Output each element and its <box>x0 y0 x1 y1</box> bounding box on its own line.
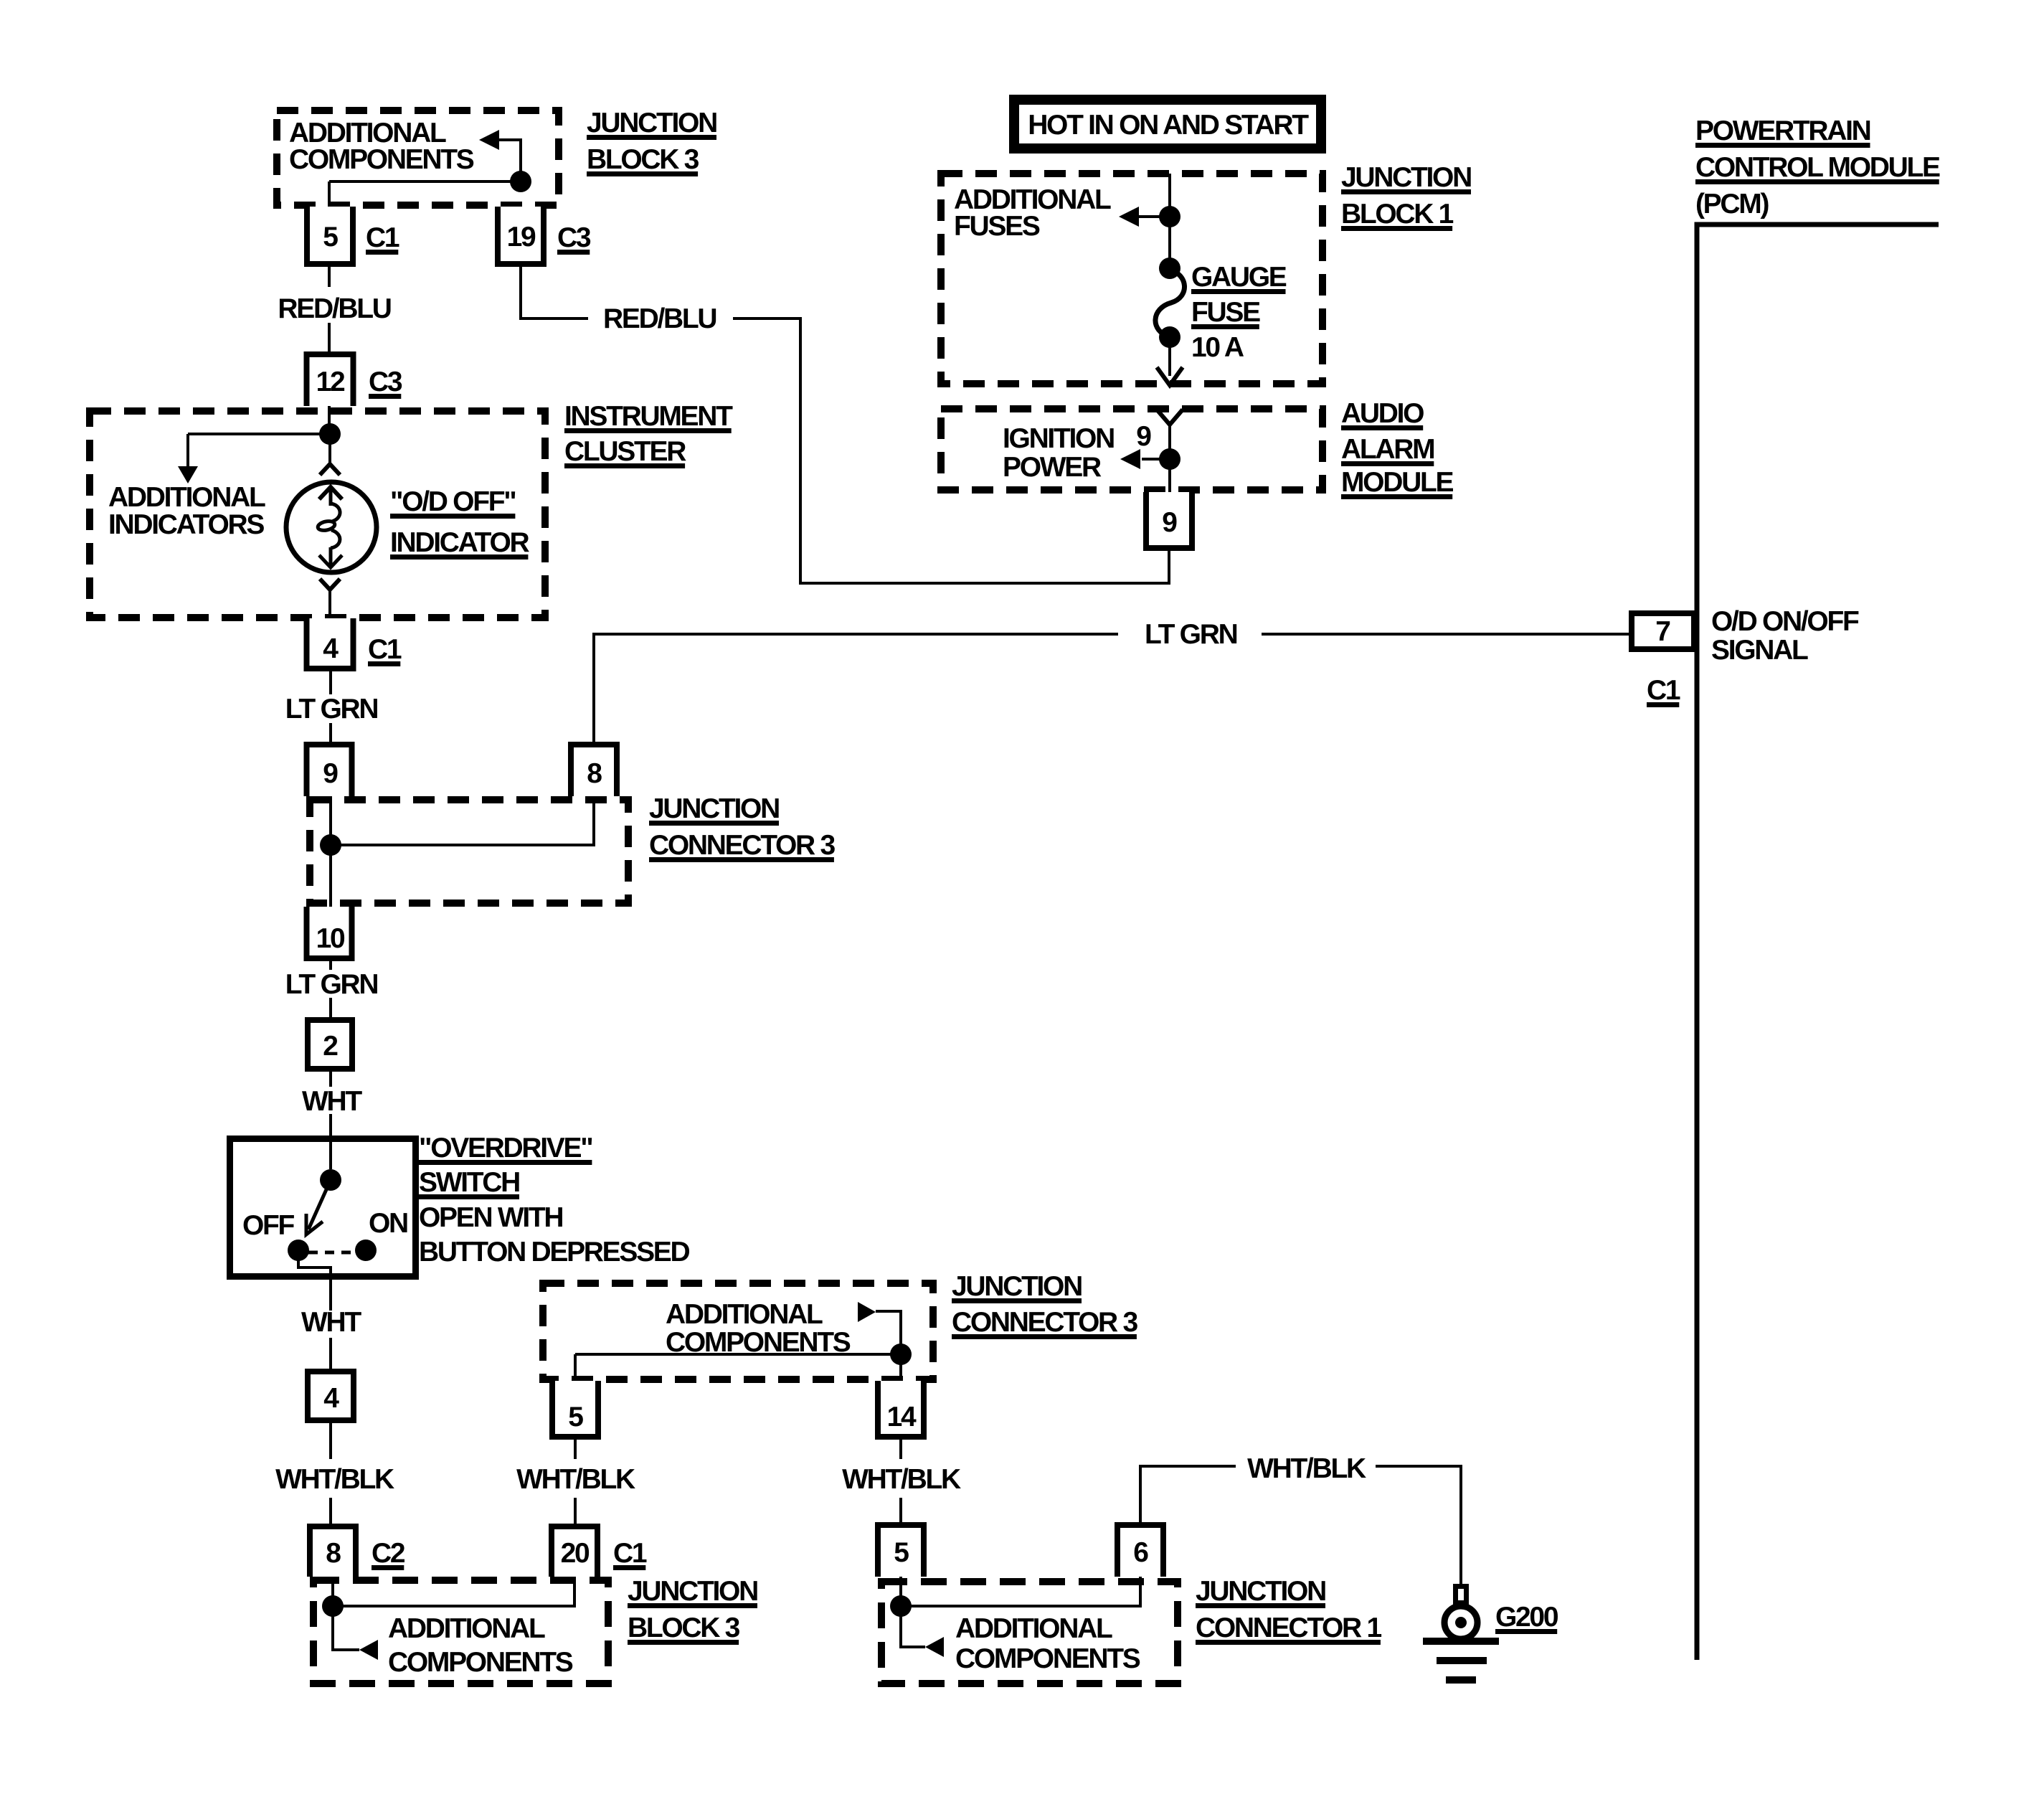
junction connector 1 box <box>881 1582 1178 1684</box>
wire arrow drop <box>186 434 189 466</box>
svg-text:WHT/BLK: WHT/BLK <box>516 1464 635 1495</box>
arrowhead fuse output <box>1157 367 1183 385</box>
wire WHT/BLK to connector 8 <box>329 1498 332 1524</box>
ground G200 <box>1423 1587 1499 1684</box>
svg-text:ALARM: ALARM <box>1341 434 1434 465</box>
wire switch feed <box>329 1136 332 1180</box>
svg-text:POWERTRAIN: POWERTRAIN <box>1695 115 1870 146</box>
junction dot JB3 top <box>510 171 531 192</box>
wire WHT/BLK to connector 20 <box>574 1498 577 1524</box>
wire JB3 horizontal <box>329 180 521 183</box>
switch dashed link <box>308 1251 356 1255</box>
svg-text:WHT/BLK: WHT/BLK <box>1247 1453 1366 1484</box>
wire fuse feed <box>1168 217 1171 268</box>
arrowhead to additional components (JB3 bottom) <box>359 1640 378 1660</box>
wire connector 5 (JC1) to node <box>899 1577 902 1606</box>
wire node to connector 10 <box>329 845 332 912</box>
svg-text:9: 9 <box>1162 507 1177 538</box>
wire WHT to connector 4 <box>329 1338 332 1369</box>
wire LT GRN to connector 2 <box>329 998 332 1017</box>
connector 20 C1 (JB3 bottom) <box>549 1524 600 1577</box>
svg-text:JUNCTION: JUNCTION <box>587 108 716 138</box>
wire RED/BLU to connector 12 <box>328 323 331 353</box>
junction dot instrument cluster <box>319 423 341 445</box>
svg-text:JUNCTION: JUNCTION <box>1341 162 1471 193</box>
svg-text:G200: G200 <box>1495 1602 1558 1633</box>
svg-text:14: 14 <box>887 1402 917 1432</box>
svg-text:CONNECTOR 3: CONNECTOR 3 <box>649 830 835 861</box>
junction dot AAM ignition power <box>1159 448 1180 470</box>
svg-text:C1: C1 <box>366 222 399 253</box>
svg-text:FUSE: FUSE <box>1191 297 1260 328</box>
connector 4 (overdrive switch out) <box>308 1372 354 1420</box>
wire connector 2 to WHT <box>329 1072 332 1087</box>
arrowhead from additional components (JC3 lower) <box>858 1302 876 1322</box>
svg-text:COMPONENTS: COMPONENTS <box>289 144 474 175</box>
svg-text:C1: C1 <box>613 1538 647 1569</box>
junction block 1 box <box>941 174 1323 384</box>
svg-text:C2: C2 <box>372 1538 405 1569</box>
svg-text:8: 8 <box>587 758 602 789</box>
svg-text:BLOCK 1: BLOCK 1 <box>1341 199 1454 230</box>
wire AAM terminal to node <box>1168 425 1171 459</box>
svg-text:CONNECTOR 3: CONNECTOR 3 <box>952 1307 1137 1338</box>
wire connector 10 to LT GRN <box>329 961 332 970</box>
svg-text:9: 9 <box>1136 421 1151 452</box>
svg-text:RED/BLU: RED/BLU <box>603 303 716 334</box>
svg-text:COMPONENTS: COMPONENTS <box>666 1327 851 1358</box>
terminal chevron AAM input <box>1157 410 1183 425</box>
svg-text:C3: C3 <box>557 222 591 253</box>
svg-text:RED/BLU: RED/BLU <box>278 293 390 324</box>
connector 8 C2 (JB3 bottom) <box>307 1524 359 1577</box>
svg-text:FUSES: FUSES <box>954 211 1040 242</box>
junction dot connector 3 (lower) <box>890 1344 912 1365</box>
svg-text:MODULE: MODULE <box>1341 467 1453 498</box>
svg-text:BLOCK 3: BLOCK 3 <box>628 1613 740 1643</box>
svg-text:OFF: OFF <box>242 1210 295 1241</box>
wire ignition power arrow <box>1142 458 1170 461</box>
wire switch OFF contact exit <box>298 1260 331 1311</box>
connector 4 C1 (instrument cluster) <box>304 618 356 671</box>
svg-text:20: 20 <box>561 1538 590 1569</box>
svg-text:9: 9 <box>323 758 338 789</box>
svg-text:AUDIO: AUDIO <box>1341 398 1424 429</box>
wire WHT/BLK to connector 5 (JC1) <box>899 1498 902 1522</box>
svg-text:JUNCTION: JUNCTION <box>649 793 779 824</box>
wire connector 8 to junction node <box>331 1577 334 1606</box>
svg-text:OPEN WITH: OPEN WITH <box>419 1202 562 1233</box>
overdrive switch box <box>230 1139 416 1277</box>
wire WHT/BLK to G200 <box>1376 1466 1461 1584</box>
svg-text:C1: C1 <box>368 634 402 665</box>
connector 9 (junction connector 3) <box>304 742 355 796</box>
svg-text:5: 5 <box>894 1537 909 1568</box>
svg-text:LT GRN: LT GRN <box>1145 619 1237 650</box>
connector 14 (JC3 lower) <box>875 1381 927 1440</box>
connector 12 C3 <box>304 351 356 406</box>
svg-text:COMPONENTS: COMPONENTS <box>388 1647 573 1678</box>
svg-text:ADDITIONAL: ADDITIONAL <box>666 1299 823 1330</box>
svg-text:JUNCTION: JUNCTION <box>628 1576 757 1607</box>
svg-text:"OVERDRIVE": "OVERDRIVE" <box>419 1133 592 1163</box>
wire JC3 node to connector 14 <box>899 1354 902 1395</box>
connector 10 (junction connector 3) <box>304 907 355 961</box>
svg-text:JUNCTION: JUNCTION <box>952 1271 1082 1302</box>
svg-text:INDICATORS: INDICATORS <box>108 509 264 540</box>
svg-text:INSTRUMENT: INSTRUMENT <box>564 401 733 432</box>
connector 5 (JC3 lower) <box>549 1381 601 1440</box>
svg-text:"O/D OFF": "O/D OFF" <box>390 486 515 517</box>
wire JB3 dot to connector 5 lead <box>328 181 331 207</box>
wire RED/BLU to audio alarm module <box>733 318 1169 583</box>
wire switch output <box>298 1260 331 1281</box>
svg-text:O/D ON/OFF: O/D ON/OFF <box>1711 606 1859 637</box>
svg-text:12: 12 <box>316 367 345 397</box>
wire LT GRN trunk to PCM <box>594 634 1118 742</box>
wire node to connector 20 riser <box>333 1577 574 1606</box>
svg-text:IGNITION: IGNITION <box>1003 423 1114 454</box>
wire connector 6 to WHT/BLK <box>1140 1466 1236 1522</box>
arrowhead to ignition power <box>1120 449 1140 469</box>
wire connector 19 down <box>521 267 588 318</box>
fuse terminal dot lower <box>1159 326 1180 348</box>
svg-text:BLOCK 3: BLOCK 3 <box>587 144 699 175</box>
HOT IN ON AND START box <box>1014 100 1321 148</box>
junction dot JB1 <box>1159 206 1180 227</box>
connector 9 (AAM) <box>1143 492 1195 551</box>
svg-text:ADDITIONAL: ADDITIONAL <box>955 1613 1112 1644</box>
svg-text:19: 19 <box>507 222 536 252</box>
fuse GAUGE FUSE 10A element <box>1155 270 1185 337</box>
wire fuse to module arrow <box>1168 337 1171 376</box>
wire JB1 feed <box>1168 174 1171 217</box>
svg-text:LT GRN: LT GRN <box>285 969 378 1000</box>
arrowhead to additional fuses <box>1119 207 1139 227</box>
wire connector 5 to RED/BLU <box>328 267 331 287</box>
svg-text:10: 10 <box>316 923 345 954</box>
wire switch feed inside <box>329 1138 332 1169</box>
arrowhead to additional indicators <box>178 466 198 483</box>
wire WHT to overdrive switch <box>329 1114 332 1136</box>
wire lamp to connector 4 <box>328 590 331 625</box>
svg-text:10 A: 10 A <box>1191 332 1244 363</box>
junction connector 3 box (upper) <box>310 800 628 903</box>
wire JC3 node riser to arrow <box>876 1311 901 1354</box>
svg-text:CONTROL MODULE: CONTROL MODULE <box>1695 152 1940 183</box>
wire node to additional components arrow <box>333 1606 359 1650</box>
switch blade <box>308 1180 331 1229</box>
junction dot JB3 bottom <box>322 1595 344 1617</box>
svg-text:ON: ON <box>369 1208 407 1239</box>
fuse terminal dot upper <box>1159 258 1180 279</box>
svg-text:4: 4 <box>323 633 339 664</box>
svg-text:SIGNAL: SIGNAL <box>1711 635 1808 666</box>
wire node to lamp <box>328 434 331 465</box>
svg-text:4: 4 <box>323 1383 339 1414</box>
switch blade arrowhead <box>306 1214 323 1234</box>
svg-text:WHT: WHT <box>302 1086 362 1117</box>
wire connector 5 to WHT/BLK (lower left) <box>574 1440 577 1459</box>
switch pivot contact <box>320 1169 341 1191</box>
svg-text:5: 5 <box>323 222 338 252</box>
junction dot connector 3 (upper) <box>320 834 341 856</box>
svg-text:LT GRN: LT GRN <box>285 694 378 724</box>
"O/D OFF" indicator lamp <box>286 464 377 590</box>
svg-text:7: 7 <box>1655 616 1670 647</box>
powertrain control module (PCM) outline <box>1697 225 1939 1660</box>
svg-text:WHT/BLK: WHT/BLK <box>842 1464 961 1495</box>
junction block 3 (top) box <box>277 110 559 205</box>
wire connector 9 to junction node <box>329 796 332 845</box>
arrowhead to additional components (JB3 top) <box>479 130 499 150</box>
connector 8 (junction connector 3) <box>568 742 620 796</box>
junction connector 3 box (lower) <box>543 1283 933 1379</box>
connector 19 C3 (JB3 top) <box>495 207 547 267</box>
svg-text:6: 6 <box>1133 1537 1148 1568</box>
wire node to additional components arrow (JC1) <box>901 1606 925 1647</box>
svg-text:COMPONENTS: COMPONENTS <box>955 1643 1140 1674</box>
wire node to connector 9 (AAM) <box>1168 459 1171 502</box>
svg-text:INDICATOR: INDICATOR <box>390 527 529 558</box>
instrument cluster box <box>90 411 545 618</box>
svg-text:5: 5 <box>568 1402 583 1432</box>
wire connector 12 to junction node <box>328 405 331 434</box>
wire connector 4 to LT GRN <box>329 671 332 694</box>
svg-text:8: 8 <box>326 1538 341 1569</box>
wire connector 14 to WHT/BLK <box>899 1440 902 1459</box>
junction dot connector 1 <box>890 1595 912 1617</box>
svg-text:ADDITIONAL: ADDITIONAL <box>388 1613 545 1644</box>
svg-text:JUNCTION: JUNCTION <box>1196 1576 1325 1607</box>
svg-text:2: 2 <box>323 1031 338 1062</box>
connector 5 (JC1) <box>875 1522 927 1577</box>
svg-text:BUTTON DEPRESSED: BUTTON DEPRESSED <box>419 1237 690 1267</box>
wire connector 4 to WHT/BLK <box>329 1423 332 1459</box>
svg-text:HOT IN ON AND START: HOT IN ON AND START <box>1028 110 1309 141</box>
svg-text:POWER: POWER <box>1003 452 1102 483</box>
wire JC3 node to connector 5 drop <box>574 1354 577 1395</box>
wire node to connector 6 riser <box>901 1577 1140 1606</box>
connector 5 C1 (JB3 top) <box>304 207 356 267</box>
connector 6 (JC1) <box>1115 1522 1166 1577</box>
connector 2 (overdrive switch) <box>308 1020 352 1069</box>
wire LT GRN trunk right segment <box>1262 633 1629 636</box>
svg-text:ADDITIONAL: ADDITIONAL <box>108 482 265 513</box>
switch OFF contact <box>288 1240 309 1261</box>
audio alarm module box <box>941 409 1323 490</box>
junction block 3 (bottom) box <box>313 1580 608 1684</box>
wire node to additional indicators arrow <box>188 433 330 435</box>
wire additional fuses arrow <box>1139 215 1170 218</box>
svg-text:C1: C1 <box>1647 675 1680 706</box>
wire stub inside connector 5 <box>328 207 331 222</box>
wire node to connector 8 riser <box>331 796 594 845</box>
svg-text:C3: C3 <box>369 367 402 397</box>
svg-text:WHT/BLK: WHT/BLK <box>275 1464 394 1495</box>
switch ON contact <box>355 1240 377 1261</box>
svg-text:CONNECTOR 1: CONNECTOR 1 <box>1196 1613 1381 1643</box>
svg-text:GAUGE: GAUGE <box>1191 262 1287 293</box>
svg-text:(PCM): (PCM) <box>1695 189 1769 219</box>
svg-text:SWITCH: SWITCH <box>419 1167 519 1198</box>
svg-text:WHT: WHT <box>301 1307 361 1338</box>
arrowhead to additional components (JC1) <box>925 1637 944 1657</box>
wire JB3 arrow riser <box>499 140 521 181</box>
svg-text:CLUSTER: CLUSTER <box>564 436 686 467</box>
wire JC3 horizontal <box>575 1353 901 1356</box>
connector 7 C1 (PCM) <box>1632 613 1694 649</box>
wire LT GRN to connector 9 <box>329 723 332 742</box>
wire stub inside connector 19 <box>519 207 522 222</box>
